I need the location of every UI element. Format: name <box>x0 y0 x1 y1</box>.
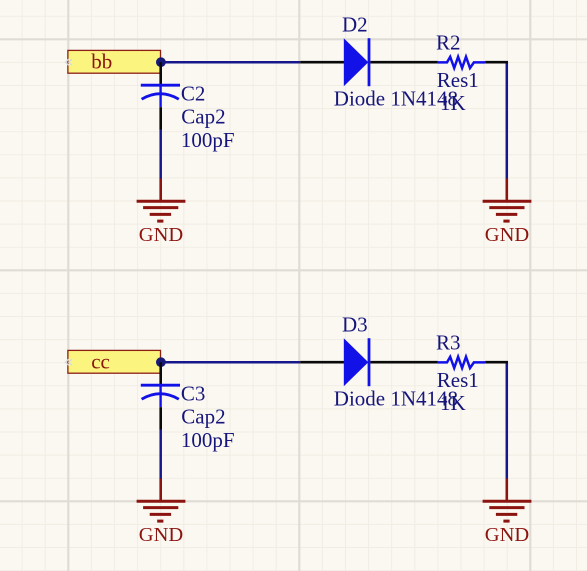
wire: vertical net below capacitor C2 <box>159 129 162 179</box>
resistor R2 value label 1K <box>440 91 466 115</box>
svg-text:Res1: Res1 <box>437 68 479 92</box>
svg-text:Cap2: Cap2 <box>181 104 225 128</box>
diode D2 cathode bar <box>368 38 371 86</box>
capacitor C3 value label 100pF <box>181 428 235 452</box>
svg-text:1K: 1K <box>440 391 466 415</box>
port bb <box>68 50 161 74</box>
capacitor C2 pin 2 <box>159 107 162 129</box>
svg-text:Cap2: Cap2 <box>181 404 225 428</box>
resistor R3 right pin <box>485 361 508 364</box>
diode D2 anode pin <box>300 61 344 64</box>
svg-text:R2: R2 <box>436 31 461 55</box>
svg-text:100pF: 100pF <box>181 128 235 152</box>
wire: horizontal net from port bb to diode D2 anode <box>161 61 301 64</box>
capacitor C2 pin 1 <box>159 62 162 84</box>
svg-text:R3: R3 <box>436 331 461 355</box>
svg-text:D2: D2 <box>342 13 368 37</box>
capacitor C3 designator label <box>181 382 206 406</box>
svg-text:GND: GND <box>139 224 183 246</box>
diode D3 cathode pin <box>370 361 437 364</box>
resistor R2 comment label Res1 <box>437 68 479 92</box>
node junction at port bb <box>156 57 166 67</box>
diode D3 anode pin <box>300 361 344 364</box>
capacitor C3 comment label Cap2 <box>181 404 225 428</box>
diode D3 cathode bar <box>368 338 371 386</box>
resistor R3 value label 1K <box>440 391 466 415</box>
wire: vertical net from resistor R2 down to right GND <box>506 62 509 179</box>
capacitor C2 designator label <box>181 82 206 106</box>
diode D3 triangle <box>344 338 369 386</box>
svg-text:bb: bb <box>91 50 112 74</box>
svg-text:C3: C3 <box>181 382 206 406</box>
port bb snap marker chevrons <box>65 59 72 65</box>
port cc snap marker chevrons <box>65 359 72 365</box>
svg-text:Res1: Res1 <box>437 368 479 392</box>
capacitor C2 curved bottom plate <box>142 85 179 107</box>
resistor R2 body zigzag <box>438 57 486 68</box>
ground symbol right below resistor R3 <box>483 479 532 547</box>
wire: horizontal net from port cc to diode D3 anode <box>161 361 301 364</box>
resistor R2 right pin <box>485 61 508 64</box>
capacitor C3 top plate <box>141 384 180 387</box>
ground symbol left below capacitor C2 <box>137 179 186 247</box>
node junction at port cc <box>156 357 166 367</box>
svg-text:C2: C2 <box>181 82 206 106</box>
svg-text:100pF: 100pF <box>181 428 235 452</box>
diode D2 designator label <box>342 13 368 37</box>
diode D3 designator label <box>342 313 368 337</box>
capacitor C3 pin 1 <box>159 362 162 384</box>
svg-text:GND: GND <box>485 224 529 246</box>
diode D2 cathode pin <box>370 61 437 64</box>
capacitor C3 pin 2 <box>159 407 162 429</box>
port cc <box>68 350 161 374</box>
diode D3 comment label Diode 1N4148 <box>334 386 458 410</box>
wire: vertical net below capacitor C3 <box>159 429 162 479</box>
resistor R3 designator label <box>436 331 461 355</box>
capacitor C3 curved bottom plate <box>142 385 179 407</box>
wire: vertical net from resistor R3 down to right GND <box>506 362 509 479</box>
ground symbol right below resistor R2 <box>483 179 532 247</box>
svg-text:1K: 1K <box>440 91 466 115</box>
capacitor C2 value label 100pF <box>181 128 235 152</box>
svg-text:cc: cc <box>91 350 110 374</box>
diode D2 comment label Diode 1N4148 <box>334 86 458 110</box>
resistor R3 comment label Res1 <box>437 368 479 392</box>
diode D2 triangle <box>344 38 369 86</box>
svg-text:D3: D3 <box>342 313 368 337</box>
resistor R3 body zigzag <box>438 357 486 368</box>
svg-text:GND: GND <box>139 524 183 546</box>
resistor R2 designator label <box>436 31 461 55</box>
capacitor C2 comment label Cap2 <box>181 104 225 128</box>
ground symbol left below capacitor C3 <box>137 479 186 547</box>
capacitor C2 top plate <box>141 84 180 87</box>
svg-text:GND: GND <box>485 524 529 546</box>
